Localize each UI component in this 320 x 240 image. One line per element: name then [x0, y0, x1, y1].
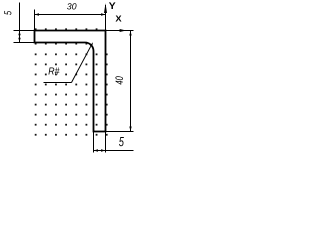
dim 30 extension line left	[34, 10, 36, 31]
dim 5 left: top extension	[14, 30, 35, 32]
Y axis line	[105, 5, 107, 31]
dim 5 left: dimension line	[19, 3, 21, 43]
dim 30 arrow left	[35, 13, 40, 15]
dim 30 line	[35, 14, 106, 16]
X axis line with 40-dim top extension	[106, 30, 134, 32]
fillet label R# text	[48, 68, 59, 75]
dim 40: bottom extension	[106, 131, 134, 133]
dim 40: dimension line	[130, 31, 132, 132]
dim 5 bottom: arrow left	[94, 149, 99, 151]
dim 40: arrow up	[129, 31, 131, 36]
dim 40: text (rotated)	[115, 76, 123, 84]
Y axis arrowhead	[104, 3, 107, 13]
fillet leader diagonal	[72, 46, 91, 82]
dim 40: arrow down	[129, 127, 131, 132]
dim 5 bottom: arrow right	[101, 149, 106, 151]
dim 5 bottom: left extension	[93, 132, 95, 153]
dim 5 left: arrow up	[18, 31, 20, 35]
dim 5 bottom: text	[119, 137, 124, 146]
fillet leader landing	[44, 82, 72, 84]
dim 30 arrow right	[101, 13, 106, 15]
dim 5 bottom: right extension	[105, 132, 107, 153]
L-profile outline	[35, 31, 106, 132]
fillet leader arrowhead	[90, 42, 93, 47]
Y axis label	[109, 2, 116, 9]
X axis arrowhead	[120, 29, 127, 32]
X axis label	[116, 16, 122, 22]
dim 5 bottom: dimension line	[94, 150, 134, 152]
dim 5 left: arrow down	[18, 38, 20, 42]
dim 30 text	[67, 3, 77, 9]
dim 5 left: text (rotated)	[4, 11, 11, 15]
dim 5 left: bottom extension	[14, 42, 35, 44]
grid dots	[35, 28, 108, 135]
